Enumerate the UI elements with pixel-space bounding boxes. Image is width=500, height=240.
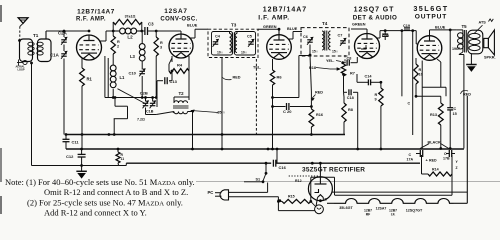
wire osc cathode row: [108, 97, 156, 99]
svg-text:C16: C16: [279, 165, 287, 170]
svg-text:Omit R-12 and connect A to B a: Omit R-12 and connect A to B and X to Z.: [44, 187, 188, 197]
svg-text:R6: R6: [277, 75, 283, 80]
wire right vertical: [463, 55, 465, 149]
svg-text:BLACK: BLACK: [428, 141, 442, 145]
ground under T5: [470, 54, 472, 65]
wire T1 secondary top to grid: [45, 31, 47, 39]
svg-text:PC: PC: [208, 190, 214, 195]
svg-text:I.F. AMP.: I.F. AMP.: [258, 15, 289, 22]
svg-text:R: R: [419, 68, 422, 72]
left page edge marks: [0, 5, 2, 22]
svg-text:C14: C14: [365, 75, 373, 79]
T4 core: [324, 31, 326, 51]
svg-text:T3: T3: [231, 23, 237, 28]
svg-text:C10: C10: [129, 71, 137, 76]
wire T2 secondary right down: [188, 111, 193, 113]
svg-text:Add R-12 and connect X to Y.: Add R-12 and connect X to Y.: [44, 208, 147, 218]
svg-text:OUTPUT: OUTPUT: [415, 14, 448, 21]
wire pilot bottom return: [277, 201, 279, 210]
svg-text:TEL.: TEL.: [253, 66, 261, 70]
svg-text:C11: C11: [72, 140, 80, 145]
svg-text:9: 9: [375, 98, 377, 102]
speaker: [484, 38, 489, 47]
T3 secondary coil: [235, 34, 237, 53]
svg-text:T1: T1: [33, 33, 39, 38]
svg-text:RF: RF: [366, 213, 371, 217]
capacitor C1A (tuning): [63, 45, 65, 52]
svg-text:C3: C3: [148, 22, 154, 27]
svg-text:C13: C13: [170, 79, 178, 84]
svg-text:RED: RED: [315, 91, 323, 95]
svg-text:15: 15: [453, 112, 457, 116]
svg-text:GREEN: GREEN: [352, 23, 366, 27]
svg-text:17B: 17B: [443, 157, 450, 161]
volume control R7: [341, 64, 345, 76]
filament string: [327, 202, 334, 204]
svg-text:15∩: 15∩: [312, 50, 318, 54]
svg-text:L3: L3: [130, 54, 136, 59]
svg-text:RED: RED: [233, 76, 241, 80]
svg-text:BLUE: BLUE: [287, 27, 298, 31]
svg-text:35L6GT: 35L6GT: [413, 4, 448, 13]
wire R6 down: [272, 85, 274, 98]
wire left vertical to bottom rail: [31, 62, 33, 166]
wire grid return: [416, 95, 441, 97]
wire cathode down: [437, 59, 441, 62]
resistor R11: [116, 152, 120, 163]
svg-text:C1B: C1B: [146, 110, 154, 114]
diode plate inside: [361, 45, 366, 49]
wire T4 dashed shield lead: [344, 55, 346, 62]
svg-text:T2: T2: [178, 91, 184, 96]
svg-text:LOOP: LOOP: [18, 69, 25, 72]
resistor R4: [171, 56, 173, 62]
svg-text:R13: R13: [430, 113, 437, 117]
svg-text:C: C: [454, 107, 457, 111]
capacitor C1B (trimmer): [152, 98, 154, 102]
svg-text:12SQ7 GT: 12SQ7 GT: [354, 7, 395, 14]
resistor R16: [310, 92, 312, 109]
resistor R8: [343, 97, 345, 103]
svg-text:12SA7: 12SA7: [376, 207, 387, 211]
wire diagonal L1 to gang: [118, 89, 147, 104]
R7 wiper arrow: [330, 68, 340, 70]
T4 primary coil: [322, 31, 324, 50]
svg-text:12B7/14A7: 12B7/14A7: [263, 7, 307, 14]
T4 secondary coil: [329, 31, 331, 50]
svg-text:C6: C6: [303, 35, 308, 39]
wire R4 to T2: [188, 71, 190, 100]
resistor R3: [155, 31, 157, 37]
wire T5 primary bottom: [459, 52, 463, 55]
wire gang to T2: [145, 108, 147, 115]
svg-text:T4: T4: [322, 21, 328, 26]
bus B+ line: [66, 134, 345, 136]
svg-text:R.F. AMP.: R.F. AMP.: [76, 17, 106, 23]
svg-text:11: 11: [121, 157, 125, 161]
svg-text:ATS: ATS: [479, 21, 487, 25]
svg-text:2: 2: [117, 45, 119, 49]
svg-text:BLUE: BLUE: [187, 24, 198, 28]
svg-text:10∩: 10∩: [217, 51, 223, 55]
svg-text:3: 3: [160, 46, 162, 50]
resistor R10: [415, 58, 417, 64]
svg-text:BLUE: BLUE: [435, 26, 446, 30]
T5 secondary: [468, 30, 483, 54]
bus second line: [66, 148, 464, 150]
tube V1 12B7 R.F. amplifier: [77, 35, 102, 60]
wires to black lead: [420, 144, 429, 149]
T3 core: [231, 33, 233, 54]
svg-text:I.F.: I.F.: [391, 213, 396, 217]
tube V6 35Z5GT rectifier: [308, 177, 332, 201]
svg-text:12SQ7GT: 12SQ7GT: [406, 209, 423, 213]
svg-text:35L6GT: 35L6GT: [339, 206, 353, 210]
loop aerial terminal: [23, 60, 27, 64]
resistor R6: [272, 59, 274, 70]
svg-text:7.2Ω: 7.2Ω: [137, 117, 145, 121]
svg-text:C: C: [409, 153, 412, 157]
svg-text:R: R: [375, 93, 378, 97]
svg-text:1967: 1967: [452, 47, 460, 51]
wire bus tie: [276, 149, 278, 163]
svg-text:C: C: [408, 102, 411, 106]
resistor R13: [438, 103, 443, 125]
wire L1 bottom: [112, 96, 115, 99]
svg-text:R8: R8: [348, 108, 353, 112]
svg-text:12SA7: 12SA7: [164, 8, 188, 15]
svg-text:37±1Ω: 37±1Ω: [125, 15, 136, 19]
coil L1: [112, 54, 114, 65]
wire C1A down to bus: [63, 59, 65, 135]
svg-text:R14: R14: [432, 168, 439, 172]
wire R1 to bus: [81, 86, 83, 149]
tube V4 12SQ7 det & audio: [355, 34, 380, 59]
dotted resistor R12: [289, 175, 320, 177]
svg-text:C5: C5: [247, 35, 252, 39]
svg-text:YEL.: YEL.: [326, 59, 334, 63]
wire screen leads down: [104, 56, 106, 98]
wires osc section: [155, 56, 157, 98]
svg-text:L2: L2: [127, 35, 133, 40]
wire output grid: [416, 43, 418, 45]
svg-text:SPKR.: SPKR.: [484, 56, 496, 60]
svg-text:R12: R12: [295, 179, 302, 183]
svg-text:C1A: C1A: [50, 53, 60, 58]
svg-text:17A: 17A: [407, 158, 414, 162]
tube V5 35L6GT output: [417, 36, 442, 61]
svg-text:CONV-OSC.: CONV-OSC.: [160, 17, 197, 23]
svg-text:R15: R15: [288, 195, 295, 199]
pilot lamp: [315, 205, 324, 214]
svg-text:GREEN: GREEN: [263, 25, 277, 29]
svg-text:R: R: [117, 40, 120, 44]
page rule line: [196, 181, 500, 183]
svg-text:R16: R16: [316, 113, 323, 117]
wire C19 verticals: [401, 31, 403, 97]
svg-text:S1: S1: [256, 178, 261, 182]
antenna: [18, 18, 28, 24]
svg-text:C12: C12: [66, 154, 74, 159]
svg-text:12B7/14A7: 12B7/14A7: [77, 9, 115, 16]
svg-text:C7: C7: [338, 34, 343, 38]
wire step to det plate: [273, 97, 299, 99]
svg-text:R7: R7: [350, 72, 355, 76]
rectifier box wires: [334, 177, 336, 195]
wire heater return: [332, 191, 468, 193]
svg-text:10∩: 10∩: [241, 51, 247, 55]
svg-text:L1: L1: [120, 75, 126, 80]
wire rectifier plate: [319, 163, 321, 177]
power cord wires: [267, 183, 269, 193]
tube V3 12B7 I.F. amplifier: [267, 35, 292, 60]
svg-text:C2B: C2B: [140, 90, 148, 95]
svg-text:T5: T5: [462, 24, 468, 29]
wire IF grid stem: [278, 29, 280, 35]
svg-text:Z: Z: [456, 166, 458, 170]
ground main: [32, 165, 119, 167]
svg-text:RED: RED: [429, 159, 437, 163]
wire cathode tie: [421, 61, 423, 150]
svg-text:R4: R4: [177, 63, 183, 68]
rail third line: [126, 162, 271, 164]
wire R7 down: [343, 76, 345, 92]
svg-text:DET & AUDIO: DET & AUDIO: [353, 15, 397, 22]
wire RF plate to L2: [99, 40, 106, 42]
wire grid top: [180, 31, 182, 34]
T3 primary coil: [230, 34, 232, 53]
svg-text:C18: C18: [347, 96, 354, 100]
resistor R2: [111, 36, 115, 54]
T5 core: [464, 30, 466, 53]
svg-text:C 20: C 20: [283, 109, 292, 114]
svg-text:R1: R1: [87, 77, 93, 82]
svg-text:35Z5GT RECTIFIER: 35Z5GT RECTIFIER: [302, 167, 365, 174]
resistor R1: [81, 59, 83, 69]
wire step under RF tube: [105, 97, 115, 99]
svg-text:R18: R18: [309, 66, 316, 70]
tube V2 12SA7 converter: [169, 34, 193, 58]
coil L2: [120, 28, 126, 34]
svg-text:15∩: 15∩: [332, 50, 338, 54]
wire det plate top run: [376, 37, 380, 39]
svg-text:R: R: [160, 41, 163, 45]
